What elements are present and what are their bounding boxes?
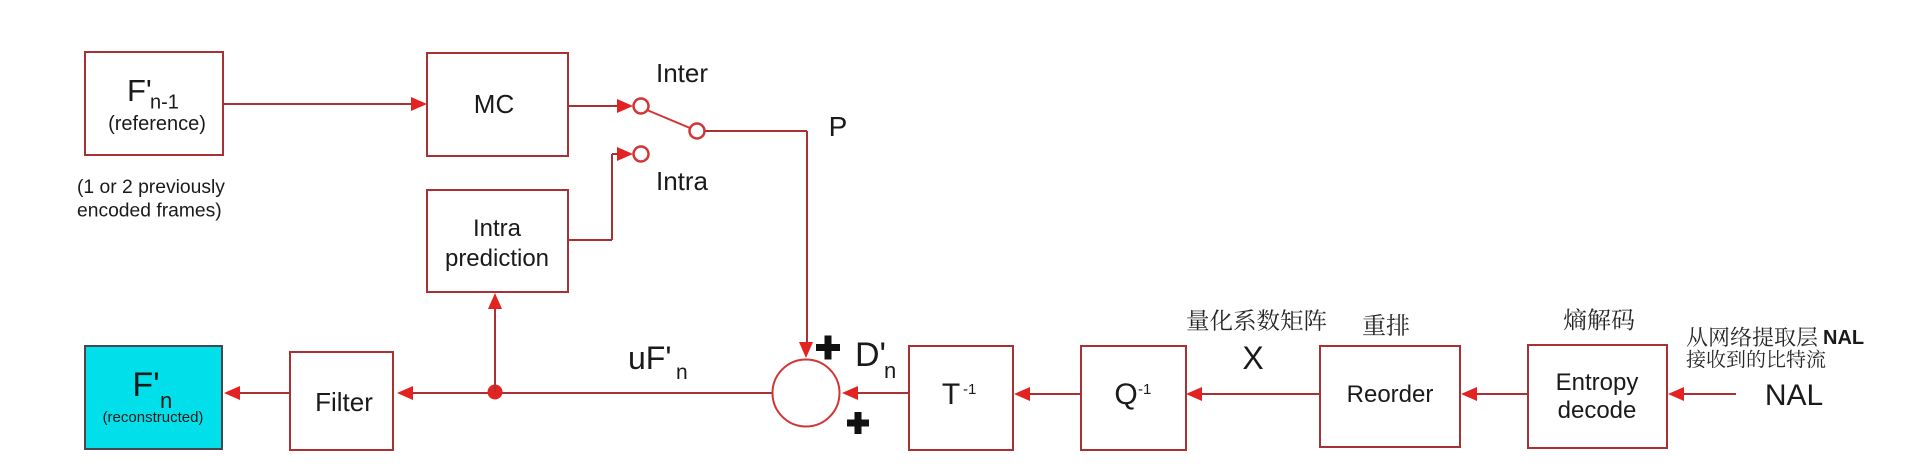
svg-text:-1: -1	[963, 381, 976, 398]
svg-text:P: P	[829, 111, 848, 142]
svg-text:Intra: Intra	[473, 215, 522, 242]
svg-text:n: n	[884, 358, 896, 383]
svg-text:n: n	[676, 361, 688, 384]
svg-text:-1: -1	[1138, 381, 1151, 398]
svg-text:MC: MC	[474, 89, 514, 119]
svg-text:NAL: NAL	[1765, 379, 1823, 412]
svg-text:NAL: NAL	[1823, 327, 1864, 349]
svg-text:Intra: Intra	[656, 166, 709, 196]
svg-text:D': D'	[855, 336, 886, 374]
svg-text:(reconstructed): (reconstructed)	[103, 409, 204, 426]
svg-text:Entropy: Entropy	[1556, 369, 1639, 396]
svg-text:F': F'	[127, 73, 152, 108]
svg-text:decode: decode	[1558, 397, 1637, 424]
svg-text:(reference): (reference)	[108, 113, 206, 135]
svg-text:encoded frames): encoded frames)	[77, 201, 222, 222]
svg-text:Reorder: Reorder	[1347, 381, 1434, 408]
svg-text:T: T	[942, 378, 960, 411]
svg-text:(1 or 2 previously: (1 or 2 previously	[77, 177, 225, 198]
svg-text:F': F'	[132, 366, 159, 404]
svg-text:Q: Q	[1114, 378, 1137, 411]
svg-text:X: X	[1242, 340, 1263, 376]
svg-text:n-1: n-1	[150, 92, 179, 114]
svg-text:Inter: Inter	[656, 58, 708, 88]
svg-text:uF': uF'	[628, 340, 671, 376]
svg-text:Filter: Filter	[315, 387, 373, 417]
svg-text:prediction: prediction	[445, 245, 549, 272]
